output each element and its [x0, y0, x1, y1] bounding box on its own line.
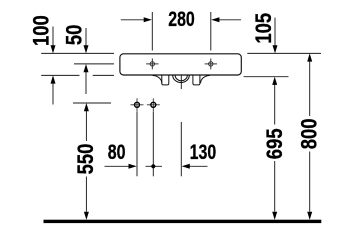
- mounting hole marker 2: [147, 98, 160, 111]
- dim 130 shaft: [189, 165, 207, 167]
- arrow 800 down: [307, 212, 312, 220]
- faucet hole cross left: [146, 58, 158, 69]
- svg-text:800: 800: [298, 118, 322, 149]
- arrow 695 down: [272, 212, 277, 220]
- svg-text:695: 695: [263, 128, 287, 159]
- arrow 105 down: [273, 45, 278, 53]
- svg-text:105: 105: [252, 13, 276, 44]
- arrow 100 down: [51, 45, 56, 53]
- under-basin drain semicircle inner: [175, 75, 187, 81]
- mounting hole marker 1: [131, 98, 144, 111]
- dim 550 shaft upper: [85, 111, 87, 141]
- extension line A left (basin top level): [41, 52, 114, 54]
- extension line B (50 below top): [74, 63, 114, 65]
- extension line C (100 below top): [41, 74, 79, 76]
- dim 695 shaft lower: [274, 161, 276, 212]
- arrow 280 left (points right): [144, 17, 152, 22]
- arrow 550 down: [84, 212, 89, 220]
- arrow 280 right (points left): [211, 17, 219, 22]
- under-basin drain semicircle outer: [173, 75, 190, 82]
- under-basin left fillet curve: [153, 76, 162, 84]
- faucet hole cross right: [205, 58, 217, 69]
- dim 280 extension line 2: [210, 12, 212, 51]
- centerline upper (drain): [180, 66, 182, 90]
- dim 50 top shaft: [85, 28, 87, 47]
- washbasin body outline: [120, 54, 241, 75]
- svg-text:100: 100: [30, 15, 54, 46]
- dim 800 shaft upper: [309, 61, 311, 116]
- dim 280 right shaft: [219, 19, 241, 21]
- dim 100 top shaft: [52, 27, 54, 47]
- dim 695 shaft upper: [274, 84, 276, 124]
- extension line D (550 level): [73, 102, 111, 104]
- arrow 50 up: [84, 64, 89, 72]
- dim 800 shaft lower: [309, 152, 311, 212]
- marker 2 extension line down: [152, 112, 154, 177]
- arrow 800 up: [307, 53, 312, 61]
- dim 100 bottom shaft: [52, 82, 54, 105]
- arrow 550 up: [84, 103, 89, 111]
- under-basin right fillet curve: [201, 76, 210, 84]
- dim 80/130 dot cross segment: [146, 165, 163, 167]
- svg-text:280: 280: [168, 8, 195, 32]
- extension line E (basin underside right): [244, 76, 289, 78]
- centerline lower segment: [180, 122, 182, 176]
- dim 80 shaft: [105, 165, 130, 167]
- dim 280 left shaft: [121, 19, 145, 21]
- arrow 80 (points right): [129, 164, 137, 169]
- under-basin profile left fillet + tab 1: [162, 75, 169, 85]
- svg-text:130: 130: [190, 141, 217, 165]
- svg-text:550: 550: [75, 144, 99, 175]
- dim 280 extension line 1: [151, 12, 153, 51]
- dim 50 bottom shaft: [85, 72, 87, 94]
- dim 105 top shaft: [274, 18, 276, 47]
- svg-text:80: 80: [108, 141, 126, 165]
- marker 1 extension line down: [136, 112, 138, 177]
- extension line A right (basin top level): [247, 52, 321, 54]
- arrow 130 (points left): [182, 164, 190, 169]
- svg-text:50: 50: [63, 25, 87, 46]
- under-basin tab 2 + right fillet: [193, 75, 200, 85]
- dim 550 shaft lower: [85, 177, 87, 212]
- arrow 50 down: [84, 45, 89, 53]
- arrow 695 up: [272, 77, 277, 85]
- arrowheads: [51, 17, 313, 220]
- floor line: [44, 220, 322, 223]
- dot terminator: [151, 164, 155, 168]
- arrow 100 up: [51, 75, 56, 83]
